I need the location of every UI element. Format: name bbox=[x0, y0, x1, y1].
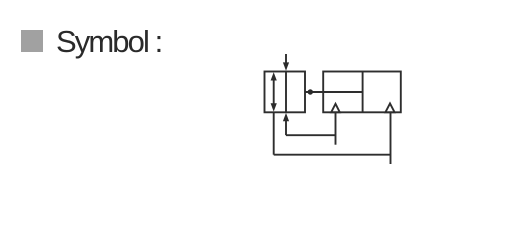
valve body left box bbox=[265, 72, 306, 113]
wire: feedback horizontal bbox=[286, 134, 336, 136]
wire: left drop bbox=[273, 112, 275, 154]
bullet square bbox=[21, 30, 43, 52]
pilot feedback arrow bbox=[283, 113, 289, 135]
title text bbox=[56, 24, 161, 60]
check valve triangle 1 bbox=[331, 104, 340, 113]
check valve triangle 2 bbox=[385, 103, 394, 112]
valve body right box bbox=[323, 72, 401, 113]
internal pilot line bbox=[305, 91, 363, 93]
wire: triangle 1 drop bbox=[335, 112, 337, 144]
right box divider bbox=[362, 72, 364, 113]
pneumatic symbol schematic bbox=[0, 0, 512, 192]
wire: triangle 2 drop bbox=[390, 112, 392, 164]
double-headed arrow bbox=[271, 72, 277, 111]
left box divider bbox=[285, 72, 287, 113]
top actuation arrow bbox=[283, 54, 289, 71]
junction dot bbox=[308, 89, 313, 94]
wire: bottom rail bbox=[274, 154, 391, 156]
